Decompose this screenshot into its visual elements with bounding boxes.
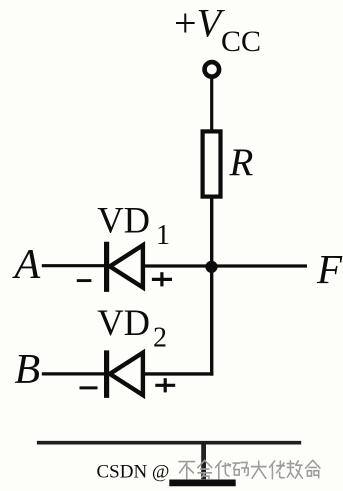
char hui (198, 460, 212, 478)
svg-text:F: F (316, 246, 343, 292)
svg-text:R: R (229, 141, 254, 184)
resistor R (203, 131, 221, 196)
svg-text:CSDN @: CSDN @ (97, 461, 170, 482)
char dai (216, 461, 231, 479)
polarity minus VD2 (80, 386, 98, 389)
wire Vcc terminal to resistor top (210, 77, 213, 132)
diode VD1 triangle (110, 245, 143, 287)
char ming (306, 460, 320, 477)
wire input A to diode VD1 (42, 264, 107, 267)
char ma (233, 462, 248, 475)
polarity plus VD2 (155, 378, 175, 392)
watermark CJK glyph strokes (179, 460, 320, 479)
wire rail to ground (201, 445, 206, 480)
polarity minus VD1 (77, 279, 92, 282)
svg-text:A: A (12, 242, 41, 288)
diode VD2 cathode bar (104, 350, 109, 398)
wire resistor bottom through node F down to VD2 corner (210, 197, 213, 376)
bottom rail wire (37, 441, 301, 445)
char jiu (287, 461, 302, 478)
diode VD1 cathode bar (104, 242, 109, 292)
wire VD1 to output F (143, 264, 307, 267)
char bu (179, 462, 194, 479)
junction node dot (205, 261, 217, 273)
polarity plus VD1 (152, 272, 172, 286)
wire VD2 to vertical riser (143, 372, 214, 375)
ground bar (169, 479, 235, 486)
char lao (270, 461, 285, 479)
terminal Vcc (open circle) (205, 62, 220, 77)
char da (252, 461, 266, 478)
wire input B to diode VD2 (42, 372, 107, 375)
svg-text:B: B (15, 347, 41, 393)
diode VD2 triangle (110, 353, 143, 396)
